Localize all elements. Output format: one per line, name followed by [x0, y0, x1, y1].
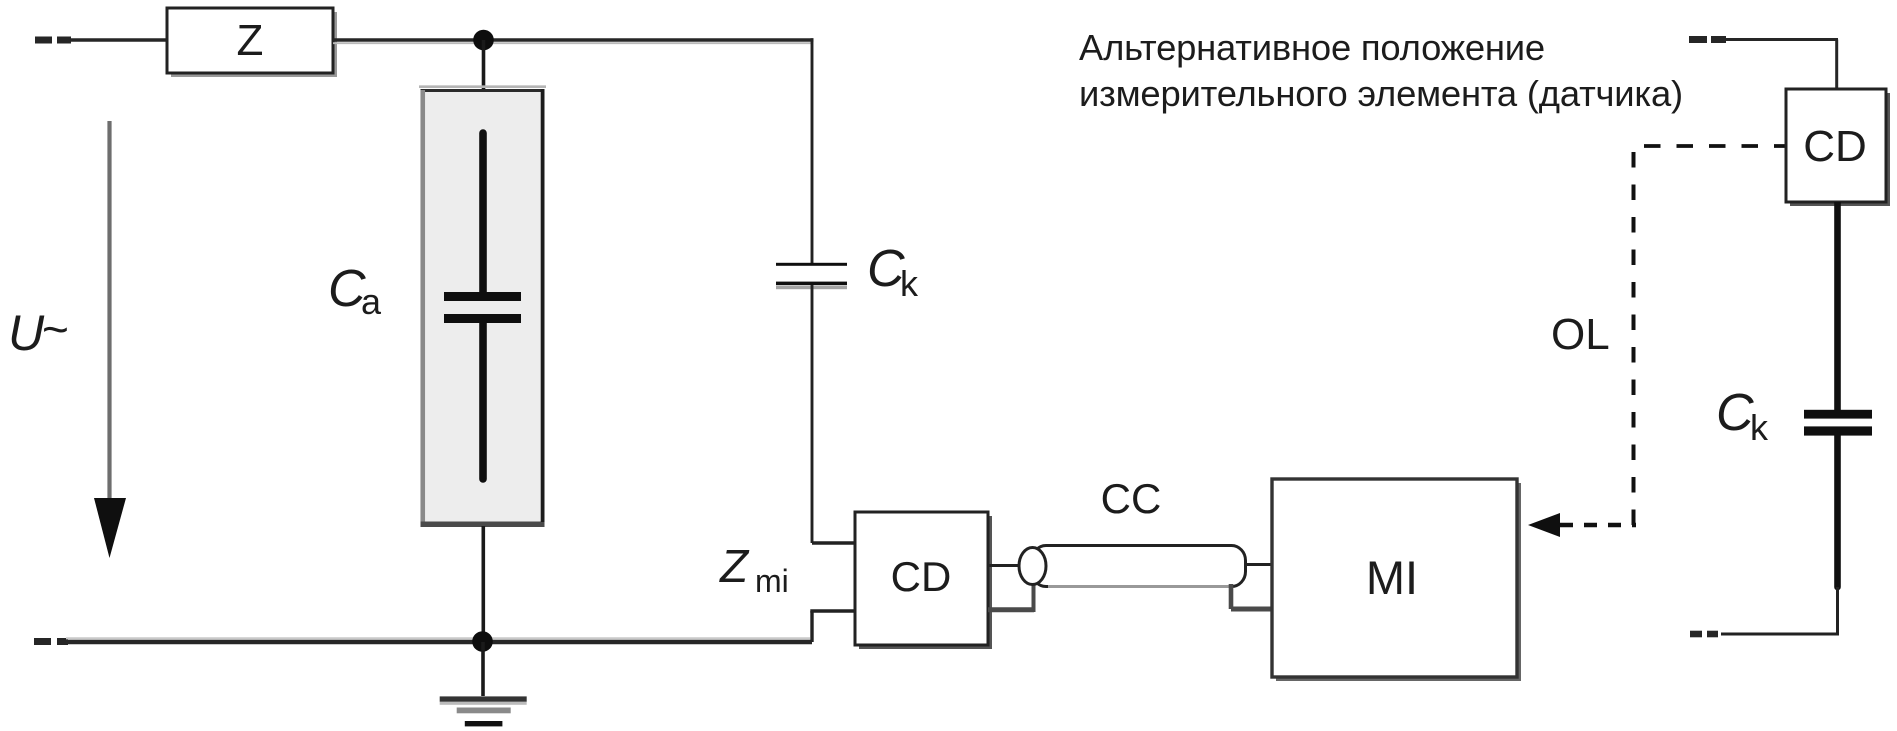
- svg-text:измерительного элемента (датчи: измерительного элемента (датчика): [1079, 73, 1683, 114]
- wire bottom-right: [1721, 587, 1839, 634]
- wire bottom rail step up to CD: [810, 611, 856, 642]
- arrow into MI: [1528, 513, 1636, 537]
- wire Ca to bottom junction: [481, 526, 485, 640]
- svg-text:mi: mi: [755, 563, 789, 599]
- svg-text:Z: Z: [237, 16, 264, 65]
- impedance Z: [167, 8, 337, 77]
- label Ca: [328, 260, 382, 322]
- svg-text:C: C: [1716, 384, 1754, 442]
- wire top-left dashed end: [35, 37, 71, 44]
- svg-text:CC: CC: [1101, 475, 1162, 522]
- note text (Russian): [1079, 27, 1683, 114]
- wire top-right rail: [1726, 40, 1838, 91]
- capacitor Ca symbol: [444, 133, 521, 479]
- wire cable core to MI: [1246, 563, 1275, 566]
- wire top-right dashed end: [1689, 36, 1726, 43]
- capacitor Ck (alternative): [1804, 410, 1872, 436]
- svg-text:MI: MI: [1366, 551, 1418, 604]
- label Ck right: [1716, 384, 1769, 448]
- svg-text:a: a: [361, 281, 382, 322]
- svg-text:U: U: [8, 305, 45, 361]
- svg-text:CD: CD: [891, 553, 952, 600]
- wire top rail right: [333, 38, 814, 41]
- coupling device CD box: [855, 512, 992, 649]
- wire stub into CD top: [812, 541, 856, 544]
- wire bottom-left dashed end: [34, 638, 68, 645]
- svg-text:CD: CD: [1803, 122, 1867, 171]
- svg-text:Z: Z: [719, 540, 750, 592]
- node junction bottom: [472, 631, 493, 652]
- capacitor Ck (coupling): [776, 263, 847, 289]
- coupling device CD box (alternative): [1786, 89, 1890, 206]
- wire thick below Ck right: [1834, 435, 1841, 587]
- wire top rail left: [69, 38, 168, 41]
- dashed link OL horizontal to CD: [1644, 144, 1786, 148]
- wire cable shield to MI: [1231, 584, 1274, 609]
- wire junction to ground: [481, 642, 485, 696]
- svg-text:OL: OL: [1551, 310, 1610, 359]
- wire bottom-right dashed end: [1690, 631, 1718, 638]
- wire Ck branch vertical lower: [811, 285, 814, 543]
- test object Ca box: [419, 87, 546, 526]
- measuring instrument MI box: [1272, 479, 1521, 681]
- svg-text:~: ~: [42, 303, 69, 355]
- label Ck middle: [867, 240, 919, 304]
- wire dot to Ca: [482, 40, 486, 92]
- wire bottom rail: [66, 637, 810, 639]
- label Zmi: [719, 540, 789, 599]
- ground: [440, 696, 527, 726]
- node junction top: [473, 30, 494, 51]
- svg-text:Альтернативное положение: Альтернативное положение: [1079, 27, 1545, 68]
- voltage arrow: [94, 121, 126, 558]
- wire CD to cable shield: [988, 584, 1034, 612]
- wire CD to cable core: [988, 564, 1022, 567]
- svg-text:k: k: [900, 263, 919, 304]
- connecting cable CC: [1019, 546, 1246, 587]
- wire Ck branch vertical upper: [811, 38, 814, 264]
- dashed link OL vertical: [1632, 152, 1636, 526]
- wire thick below CD right: [1834, 202, 1841, 412]
- svg-text:k: k: [1750, 407, 1769, 448]
